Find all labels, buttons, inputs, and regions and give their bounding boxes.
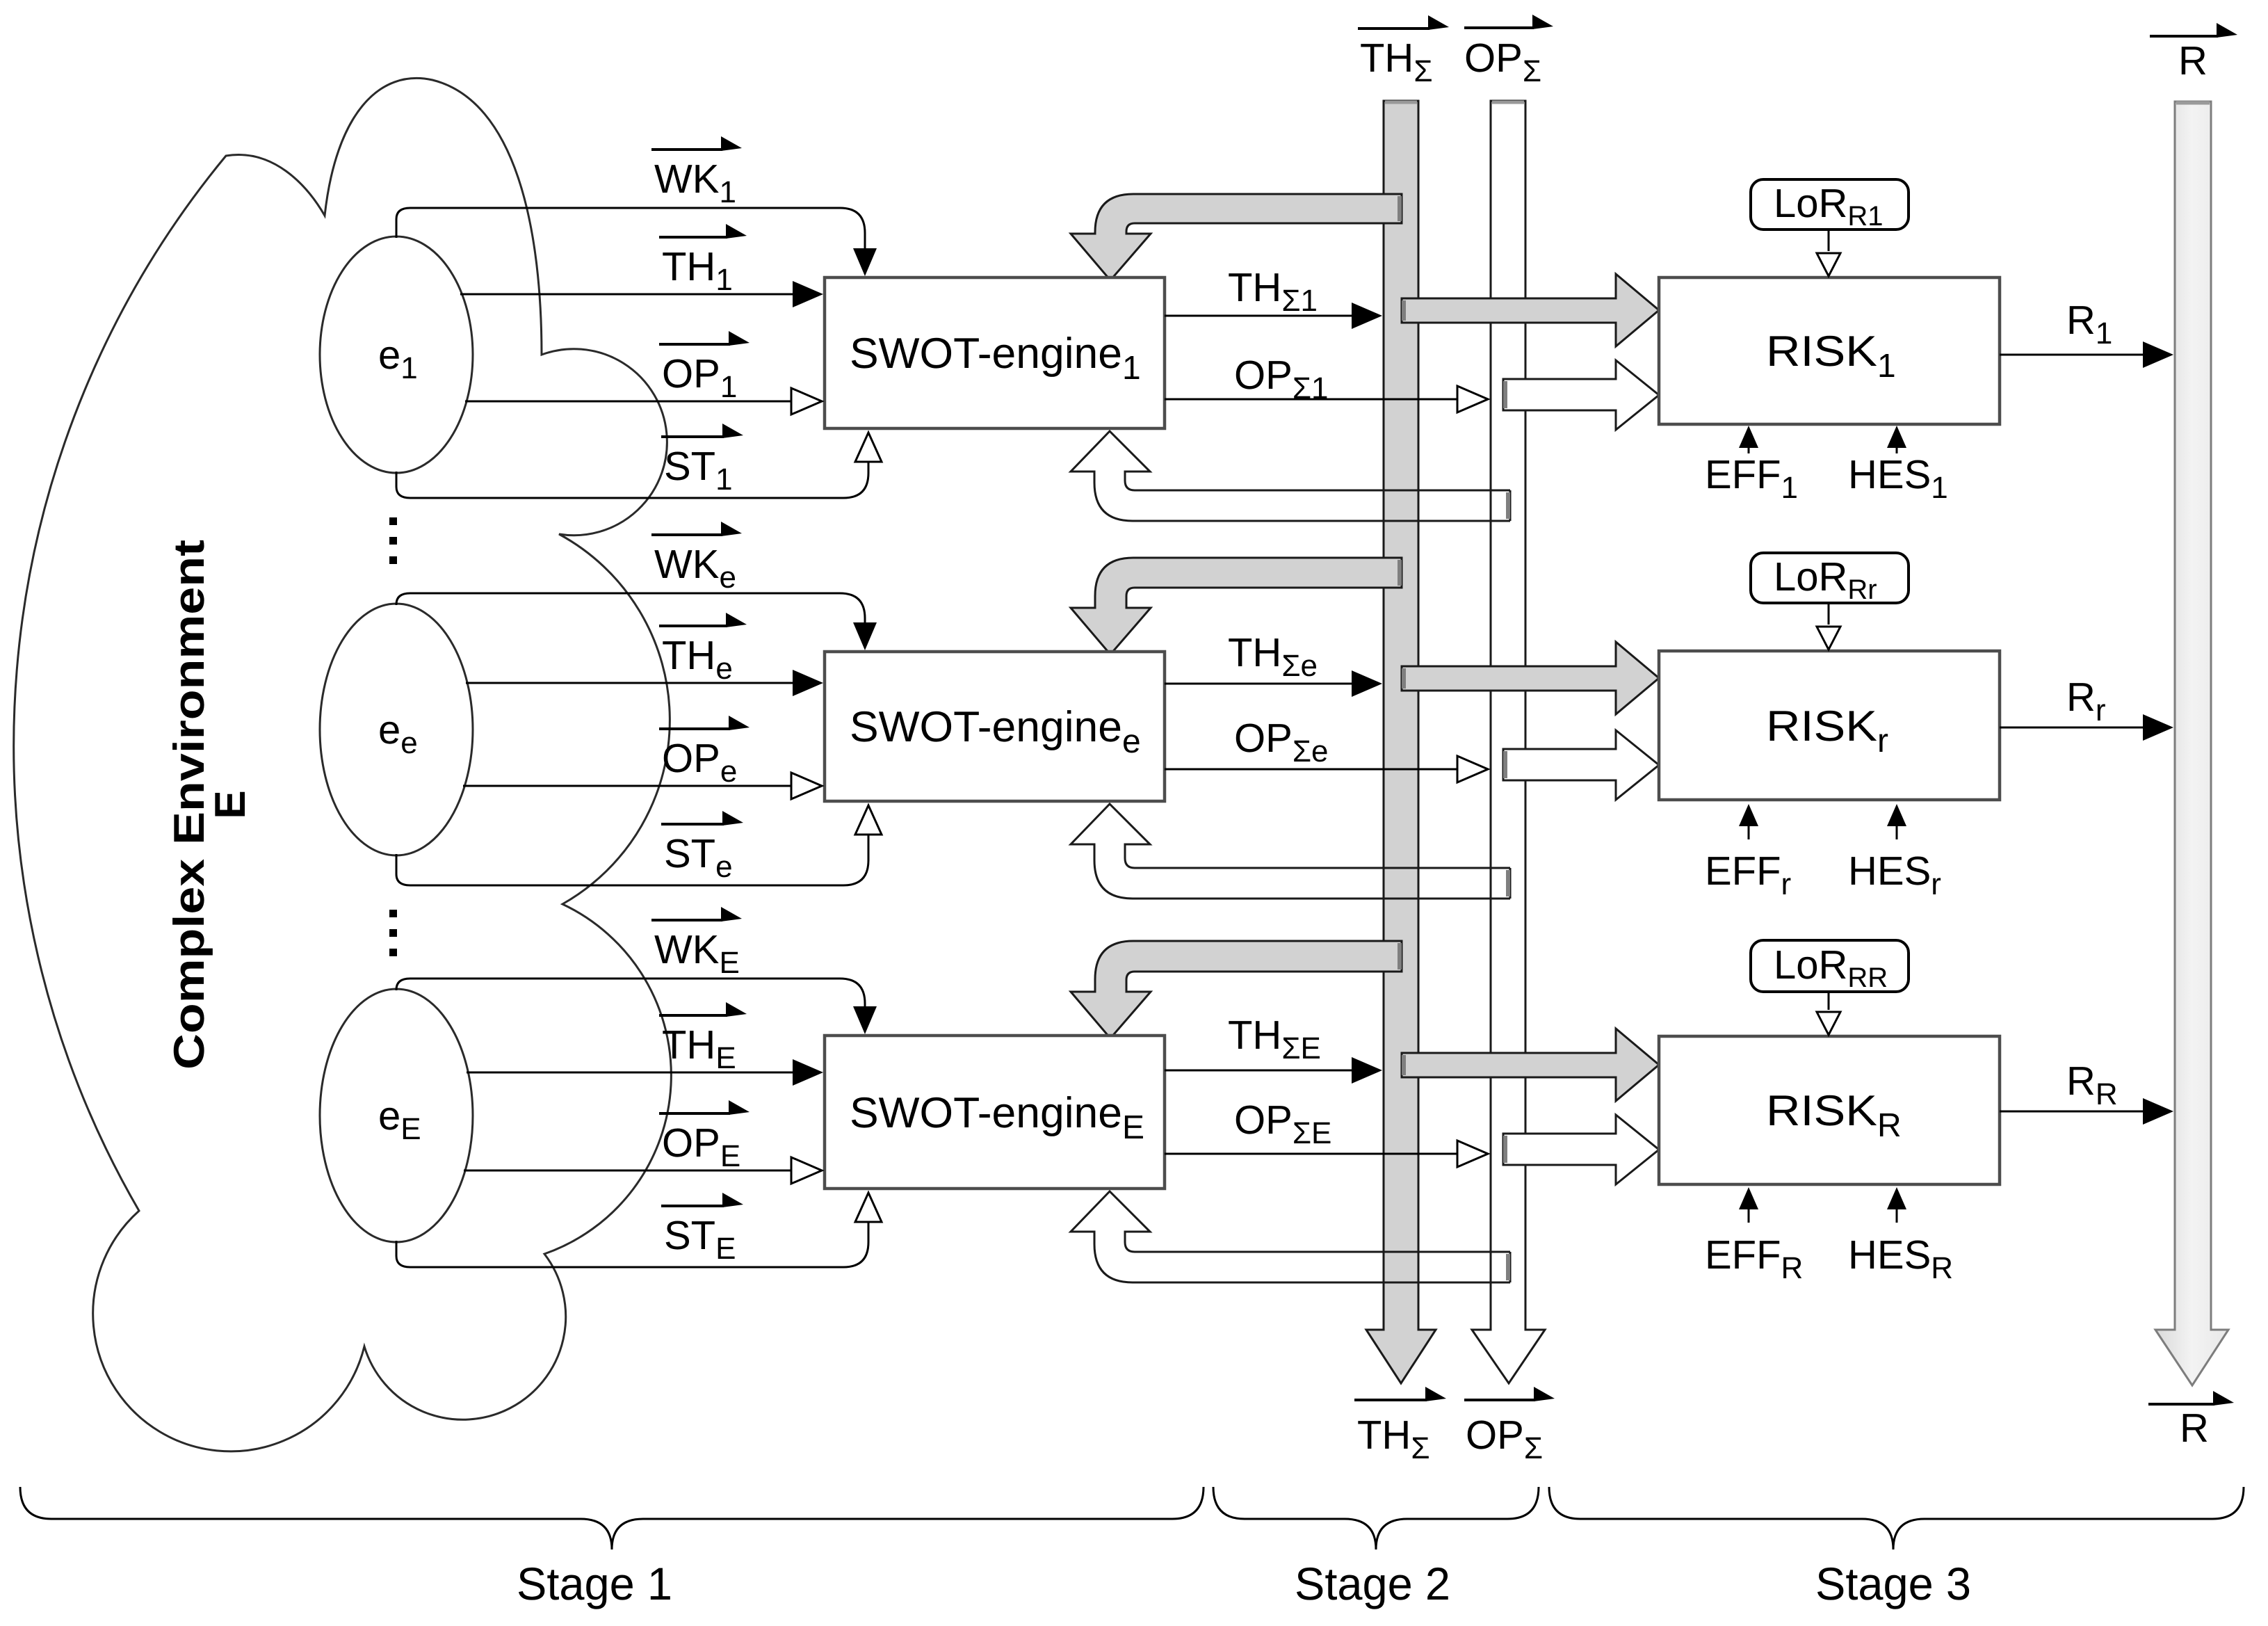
RISK1 box: [1659, 277, 2000, 424]
wire OP1: ellipse to SWOT left: [465, 401, 791, 403]
gray feedback pipe TH-sum to SWOT-enginee top: [1071, 558, 1402, 654]
label THe: [659, 625, 727, 627]
wire LoR to RISK1 top: [1828, 230, 1830, 251]
label OP-sum bottom: [1464, 1399, 1535, 1401]
wire OPe: ellipse to SWOT left: [463, 785, 791, 787]
wire R1: RISK right to R bus: [2000, 354, 2144, 356]
white feedback pipe outline over buses (row E): [1133, 1252, 1510, 1282]
R vertical bus (light gray) with bottom arrow: [2155, 102, 2228, 1385]
wire TH-sum-E: SWOT right to TH bus: [1165, 1070, 1353, 1072]
white feedback pipe outline over buses (row e): [1133, 868, 1510, 899]
wire TH1: ellipse to SWOT left: [460, 293, 794, 296]
svg-text:EFFr: EFFr: [1705, 848, 1791, 901]
SWOT-enginee box: [825, 652, 1165, 801]
ellipse eE: [320, 989, 473, 1242]
wire STe: ellipse bottom to SWOT bottom: [396, 835, 868, 885]
TH-sum vertical bus (gray) with bottom arrow: [1366, 101, 1436, 1383]
wire LoR to RISKE top: [1828, 992, 1830, 1010]
ellipsis dots between e1 and ee: [389, 517, 397, 525]
gray pipe TH-sum to RISKE: [1402, 1029, 1659, 1101]
RISKe box: [1659, 651, 2000, 800]
SWOT-engineE box: [825, 1036, 1165, 1189]
wire HESE into RISK bottom: [1896, 1207, 1898, 1223]
wire WK1: ellipse top to SWOT top: [396, 208, 865, 250]
label R bottom: [2148, 1403, 2214, 1406]
label TH1: [659, 236, 727, 239]
svg-text:Stage 2: Stage 2: [1295, 1558, 1450, 1609]
wire HES1 into RISK bottom: [1896, 445, 1898, 453]
RISKE box: [1659, 1036, 2000, 1184]
label: Complex Environment (rotated): [165, 540, 254, 1070]
svg-text:R: R: [2180, 1406, 2209, 1451]
ellipse ee: [320, 604, 473, 855]
stage 2 brace: [1213, 1487, 1539, 1549]
label TH-sum bottom: [1354, 1399, 1427, 1401]
label WK1: [651, 148, 722, 151]
white pipe OP-sum to RISKE: [1503, 1115, 1659, 1184]
wire RE: RISK right to R bus: [2000, 1111, 2144, 1113]
wire EFFE into RISK bottom: [1748, 1207, 1750, 1223]
wire OP-sum-E: SWOT right to OP bus: [1165, 1153, 1459, 1155]
wire OPE: ellipse to SWOT left: [464, 1170, 791, 1172]
label STE: [661, 1205, 724, 1207]
label OP1: [659, 343, 730, 346]
LoR RE rounded box: [1751, 940, 1909, 992]
svg-text:E: E: [206, 790, 254, 819]
gray pipe TH-sum to RISKe: [1402, 642, 1659, 714]
wire EFFe into RISK bottom: [1748, 823, 1750, 839]
label THE: [659, 1014, 727, 1017]
label ST1: [661, 435, 724, 438]
white pipe OP-sum to RISK1: [1503, 360, 1659, 430]
svg-text:Stage 1: Stage 1: [517, 1558, 672, 1609]
cloud: Complex Environment E: [14, 78, 672, 1451]
stage 3 brace: [1549, 1487, 2244, 1549]
gray feedback pipe TH-sum to SWOT-engineE top: [1071, 941, 1402, 1038]
label OP-sum top: [1464, 26, 1534, 29]
label WKe: [651, 533, 722, 536]
gray feedback pipe TH-sum to SWOT-engine1 top: [1071, 194, 1402, 280]
ellipsis dots between ee and eE: [389, 910, 397, 917]
LoR Re rounded box: [1751, 553, 1909, 603]
svg-text:HESr: HESr: [1848, 848, 1941, 901]
OP-sum vertical bus (white) with bottom arrow: [1472, 101, 1545, 1383]
SWOT-engine1 box: [825, 277, 1165, 428]
wire LoR to RISKe top: [1828, 603, 1830, 625]
svg-text:R: R: [2178, 38, 2208, 83]
wire HESe into RISK bottom: [1896, 823, 1898, 839]
ellipse e1: [320, 236, 473, 473]
svg-text:Stage 3: Stage 3: [1815, 1558, 1971, 1609]
white feedback pipe OP-sum to SWOT-engine1 bottom: [1071, 431, 1510, 521]
white feedback pipe OP-sum to SWOT-engineE bottom: [1071, 1191, 1510, 1282]
wire WKe: ellipse top to SWOT top: [396, 593, 865, 624]
white feedback pipe OP-sum to SWOT-enginee bottom: [1071, 804, 1510, 899]
wire OP-sum-1: SWOT right to OP bus: [1165, 399, 1459, 401]
wire ST1: ellipse bottom to SWOT bottom: [396, 462, 868, 498]
wire EFF1 into RISK bottom: [1748, 445, 1750, 453]
wire THE: ellipse to SWOT left: [467, 1072, 794, 1074]
wire Re: RISK right to R bus: [2000, 727, 2144, 729]
wire TH-sum-1: SWOT right to TH bus: [1165, 315, 1353, 317]
wire WKE: ellipse top to SWOT top: [396, 979, 865, 1008]
label R top: [2150, 35, 2218, 38]
label TH-sum top: [1358, 27, 1429, 30]
wire THe: ellipse to SWOT left: [466, 682, 794, 684]
label WKE: [651, 919, 722, 921]
white feedback pipe outline over buses (row 1): [1133, 490, 1510, 521]
stage 1 brace: [20, 1487, 1204, 1549]
label OPe: [659, 727, 730, 730]
wire STE: ellipse bottom to SWOT bottom: [396, 1222, 868, 1267]
LoR R1 rounded box: [1751, 179, 1909, 230]
label STe: [661, 823, 724, 826]
white pipe OP-sum to RISKe: [1503, 730, 1659, 800]
wire OP-sum-e: SWOT right to OP bus: [1165, 768, 1459, 771]
label OPE: [659, 1112, 730, 1115]
wire TH-sum-e: SWOT right to TH bus: [1165, 683, 1353, 685]
gray pipe TH-sum to RISK1: [1402, 274, 1659, 346]
